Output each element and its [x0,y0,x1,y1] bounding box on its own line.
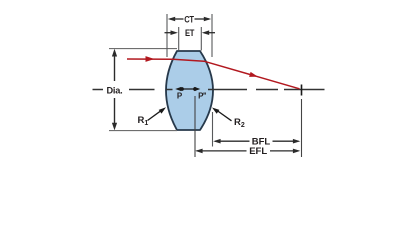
optical axis dash 6 (through focal point) [284,89,325,91]
svg-text:CT: CT [184,14,194,25]
ET extension line right [200,27,202,51]
EFL dimension line [197,150,299,152]
focal point extension line [301,99,303,157]
BFL dimension line [215,140,299,142]
svg-text:ET: ET [185,27,195,38]
Dia. dimension arrow upper [114,55,116,81]
red ray arrowhead 2 [249,72,258,77]
Dia. extension line bottom [109,130,177,132]
optical axis dash 2 [129,89,155,91]
principal point P'' [193,87,197,91]
R2 arrow [217,111,232,121]
principal plane line [178,88,199,90]
ET extension line left [178,27,180,51]
optical axis dash 1 [93,89,104,91]
EFL extension line from P'' [194,96,196,157]
optical axis dash 5 [256,89,278,91]
svg-text:P'': P'' [198,92,206,101]
label EFL background [247,146,271,156]
lens element (biconvex) [166,51,213,130]
CT dimension arrow left [170,18,184,20]
label BFL background [250,136,273,146]
CT extension line right [211,14,213,57]
optical axis dash 3 (inside lens) [166,89,173,91]
BFL extension line [212,112,214,147]
svg-text:EFL: EFL [249,146,267,157]
CT dimension arrow right [195,18,210,20]
red ray arrowhead 1 [146,56,155,62]
CT extension line left [166,14,168,57]
svg-text:P: P [177,92,183,101]
red ray [127,59,300,89]
focal point tick [301,85,303,96]
Dia. dimension arrow lower [114,98,116,125]
ET dimension arrow left (pointing right) [165,32,176,34]
svg-text:Dia.: Dia. [106,86,122,96]
ET dimension arrow right (pointing left) [205,32,216,34]
R1 arrow [148,111,162,121]
principal point P [180,87,184,91]
Dia. extension line top [109,48,177,50]
optical axis dash 4 [208,89,247,91]
